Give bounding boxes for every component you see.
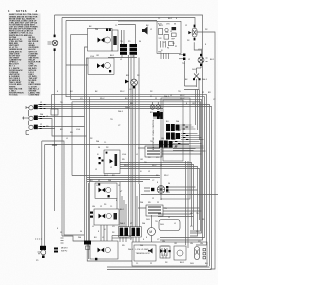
wire E1 stubs xyxy=(138,148,206,154)
connector P1 pin 3 xyxy=(26,121,38,135)
wire top third xyxy=(66,21,205,238)
wire bus line four xyxy=(72,102,201,231)
wire S1 bus b2 xyxy=(120,165,194,231)
wire lamp vertical a xyxy=(132,86,134,227)
wire lamp feed up xyxy=(133,55,135,79)
wire S3 drops xyxy=(101,225,107,241)
wire tag ticks xyxy=(40,105,46,129)
wire bus B line4 xyxy=(87,181,143,183)
buzzer BZ1 xyxy=(142,27,148,35)
power cord connector P1 xyxy=(35,239,46,262)
wire P1 bottom run a xyxy=(38,126,85,128)
element block E3 xyxy=(146,205,163,216)
door lock box B xyxy=(88,58,114,74)
wire S column riser xyxy=(71,102,73,176)
side pins component xyxy=(54,248,58,253)
connector row B xyxy=(166,133,180,140)
wire bus B line1 xyxy=(72,175,160,177)
wire E3 stubs xyxy=(138,208,202,211)
control board labels xyxy=(158,24,177,54)
wire P1 top run b xyxy=(38,107,212,270)
wire cord riser a xyxy=(41,141,43,246)
fan E2 xyxy=(151,186,168,194)
wire left bend bottom xyxy=(62,236,84,241)
wire P1 top run c xyxy=(38,108,163,110)
pin pair component xyxy=(179,54,185,61)
wire box A feed and bus3 xyxy=(71,35,202,233)
wire P1 mid run a xyxy=(38,116,85,118)
wire left outer vertical xyxy=(54,15,56,211)
wire conn stack vertical a xyxy=(128,55,130,227)
wire lamp vertical b xyxy=(134,86,136,227)
wire bus B line3 xyxy=(87,179,150,181)
motor M1 xyxy=(148,228,156,236)
wire cord loop outer xyxy=(42,141,84,235)
relay box K3 xyxy=(160,246,170,258)
relay contacts cluster xyxy=(160,246,171,259)
switch box S3 xyxy=(90,209,119,225)
S1 left pins xyxy=(99,157,104,164)
element block E1 xyxy=(145,146,162,157)
wire center vertical pair b xyxy=(87,58,89,241)
connector row A stubs xyxy=(180,125,196,129)
connector stack J2 xyxy=(130,227,141,237)
wire mid vertical xyxy=(138,58,140,185)
wire right inner pair xyxy=(186,161,189,248)
connector row B stubs xyxy=(181,134,204,140)
wire stack J2 risers xyxy=(137,184,140,227)
wire cluster1 risers xyxy=(122,30,125,44)
scan noise overlay xyxy=(0,0,1,1)
notes block shading xyxy=(9,14,41,96)
display rounded box xyxy=(159,220,180,231)
connector CN1a xyxy=(120,44,127,55)
connector row A xyxy=(166,124,180,131)
switch box S4 xyxy=(90,236,132,261)
wire top outer loop xyxy=(55,15,203,240)
wire S left vertical xyxy=(88,183,90,259)
wire center vertical pair a xyxy=(85,47,88,241)
chain labels xyxy=(61,248,68,253)
buzzer BZ2 xyxy=(148,248,153,254)
wire capsule drop xyxy=(194,42,201,57)
twisted pair zigzag xyxy=(52,144,57,146)
connector P1 pin 2 xyxy=(22,110,38,121)
wire box B feed xyxy=(66,64,88,66)
wire top third horiz xyxy=(66,20,157,22)
wire stack J1 risers xyxy=(120,182,126,227)
connector row C stubs xyxy=(173,142,204,147)
switch box S1 xyxy=(104,150,120,174)
contact X xyxy=(193,66,201,80)
wire cord riser b xyxy=(44,145,46,247)
wire center pair lower b xyxy=(89,97,91,245)
lamp DZ2 xyxy=(125,79,137,88)
wire row stubs mid xyxy=(158,214,194,217)
wire E2 stubs xyxy=(141,187,218,195)
wire conn stack vertical b xyxy=(130,55,132,227)
box K4 xyxy=(174,246,186,260)
oven control outer box xyxy=(161,98,190,199)
wire K2 outputs xyxy=(196,90,200,141)
wire stack drops xyxy=(120,237,139,242)
wire bus line one drop xyxy=(51,95,53,109)
wire S1 bus b1 xyxy=(120,163,192,227)
wire right capsule loop xyxy=(197,32,215,269)
wire motor link xyxy=(151,215,153,242)
small box at bus xyxy=(51,109,58,115)
wire bus line one xyxy=(52,95,207,245)
wire under clusters xyxy=(108,55,137,58)
wire bus B line2 xyxy=(87,177,160,179)
notes text block xyxy=(8,10,41,97)
chain connector block xyxy=(84,241,91,250)
indicator capsule HL1 xyxy=(188,25,197,41)
wire labels texture xyxy=(40,18,216,265)
terminal area box xyxy=(132,242,207,266)
wire S2 link xyxy=(116,198,118,209)
left bend ticks xyxy=(61,238,64,243)
connector row C xyxy=(159,141,173,148)
wire P1 top run a xyxy=(38,105,210,267)
lamp DZ3 xyxy=(198,54,208,66)
wire relay feed xyxy=(118,20,157,22)
wire top second xyxy=(62,18,195,30)
wire left second vertical xyxy=(61,18,63,237)
oven control inner box xyxy=(163,100,183,161)
latch sub box xyxy=(112,30,118,51)
control board box xyxy=(157,21,181,59)
capsule HL2 xyxy=(195,247,206,260)
wire S1 bus b4 xyxy=(120,169,200,221)
connector CN1b xyxy=(130,44,138,55)
switch box S2 xyxy=(95,183,117,198)
wire row stubs upper xyxy=(173,149,196,151)
wire P1 bottom run b xyxy=(38,128,55,130)
connector P1 pin 1 xyxy=(26,105,38,110)
oven lamp DZ1 xyxy=(48,35,58,51)
wire cord loop inner xyxy=(45,144,189,146)
connector stack J1 xyxy=(118,227,129,237)
wire P1 mid run b xyxy=(38,119,87,137)
wire bottom run b xyxy=(107,269,212,271)
wire S1 bus b3 xyxy=(120,167,198,237)
igniter circles xyxy=(150,102,160,119)
wire K2 region stubs xyxy=(184,61,199,90)
wire center pair lower xyxy=(87,245,132,262)
connector cluster top xyxy=(157,111,163,119)
wire cluster2 feed xyxy=(118,25,136,45)
door lock box A xyxy=(88,28,113,51)
wire bottom run a xyxy=(107,266,210,268)
